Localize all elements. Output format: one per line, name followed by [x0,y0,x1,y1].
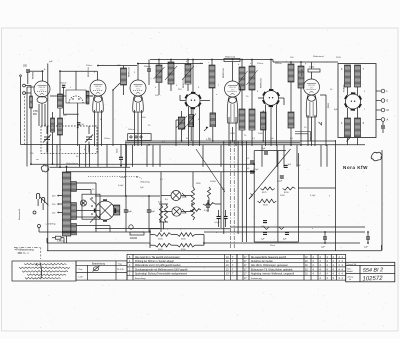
tap contact [57,212,59,214]
inductor L3 grid coil [58,118,63,135]
tube V3 HF pentode [130,80,146,112]
wire [192,60,194,93]
svg-text:3150: 3150 [263,205,269,207]
wire electrode lead [141,110,143,146]
wire V1 grid [27,86,34,88]
resistor R1 0.55M [30,96,33,108]
svg-text:REN 904: REN 904 [229,87,236,89]
wire long vertical left [47,64,49,251]
svg-text:100cm: 100cm [104,138,111,140]
wire vertical drop [152,145,154,167]
wire [215,203,221,205]
wire [61,237,64,239]
wire electrode lead [134,110,136,146]
svg-text:Spulenabgl. Eichung Trennschä: Spulenabgl. Eichung Trennschärfe nachgem… [135,273,188,276]
wire [347,87,349,95]
variable capacitor C2 [43,135,51,143]
selector contact [91,213,93,215]
tap contact [57,195,59,197]
wire bus speaker [95,228,160,230]
wire [38,228,40,233]
capacitor C8f [285,232,289,234]
wire [187,84,189,91]
wire [195,234,204,236]
capacitor C15 500cm [62,85,65,87]
wire vertical drop [85,145,87,167]
wire tone block top [254,150,286,152]
mains plug [37,193,45,203]
wire [232,62,234,82]
voltage selector box [82,194,100,219]
svg-text:Widerstände und C 2,0 µMΩ gepr: Widerstände und C 2,0 µMΩ geprüft werden [135,264,181,267]
junction [290,61,292,63]
svg-text:1910: 1910 [96,88,100,90]
wire vertical drop [296,145,298,167]
arrow L20 [176,116,187,128]
svg-text:1910: 1910 [231,89,235,91]
wire [90,95,93,97]
svg-text:REN 904: REN 904 [39,87,46,89]
wire [176,119,184,121]
wire [179,95,181,101]
wire [270,60,272,91]
wire vertical drop [276,145,278,167]
wire varcap drop a [46,142,48,153]
svg-text:380 V~ =: 380 V~ = [18,251,30,255]
junction [187,59,189,61]
svg-text:Beleuchtg.: Beleuchtg. [141,181,151,184]
wire [125,212,127,232]
wire [30,108,32,164]
wire [59,71,61,94]
svg-text:Prüfung der Röhren u. Spulen a: Prüfung der Röhren u. Spulen abgegl. [135,260,175,263]
svg-text:Durchgangsprobe mit Meßinstrum: Durchgangsprobe mit Meßinstrument 150V g… [135,268,188,271]
svg-text:24.4.35: 24.4.35 [117,269,125,271]
capacitor C13 [323,237,327,239]
wire [109,226,111,232]
resistor R9 divider [155,233,172,237]
svg-text:0,5µF: 0,5µF [118,185,124,187]
wire top bus seg3 [98,65,137,67]
wire [262,111,264,113]
wire [262,130,264,141]
wire [163,222,165,229]
wire [137,112,139,146]
wire [125,196,127,210]
wire [99,211,101,220]
wire vertical drop [126,145,128,167]
terminal antenna [23,84,26,87]
wire [59,108,61,118]
wire vertical drop [106,145,108,167]
junction F1 b [78,98,79,99]
svg-text:WWcm: WWcm [275,63,282,65]
wire [52,132,54,164]
arrow IFT1 tuning [165,66,177,80]
svg-text:1910: 1910 [310,87,314,89]
wire [251,130,253,146]
wire secondary lead [76,189,91,191]
wire [63,238,65,243]
diode arrow V7 cathode [319,122,322,125]
junction [232,140,234,142]
wire dash-dot heater return [14,246,41,248]
wire [258,97,264,99]
svg-text:Prw: Prw [79,268,83,271]
wire [63,87,65,114]
svg-text:Nora KfW: Nora KfW [343,165,368,170]
junction [324,231,326,233]
wire [218,219,220,228]
wire vertical [246,141,248,242]
svg-text:Alle 100 m. Röhrenspez. gemess: Alle 100 m. Röhrenspez. gemessen [251,264,289,267]
wire [207,207,209,212]
wire [290,82,292,112]
handwriting Ø [93,266,100,272]
inductor L26 AF transformer [261,112,267,130]
wire [97,112,99,167]
wire [158,83,160,96]
junction [148,144,150,146]
wire electrode lead [307,115,309,146]
inductor L18 secondary b [71,203,77,220]
svg-text:W: W [136,177,138,179]
inductor L23 RF coupling coil [121,68,127,85]
resistor R6 [203,203,215,206]
wire top bus seg1 [30,70,43,72]
wire electrode lead [101,110,103,146]
wire bus HT1 [125,140,336,142]
mechanical link dotted [88,175,138,177]
wire tap lead [59,203,62,205]
wire [381,245,383,251]
wire bus PSU [95,195,160,197]
svg-text:Bearbeitung: Bearbeitung [92,262,106,265]
tap contact [57,203,59,205]
svg-text:Lehr: Lehr [79,275,84,278]
volume diagonal [249,149,291,199]
wire [347,108,349,118]
junction [97,65,99,67]
svg-text:50000: 50000 [210,181,217,183]
potentiometer hum circle [129,225,133,229]
wire [86,95,93,97]
wire vertical drop [159,145,161,167]
wire V1 anode to bus [42,71,44,81]
wire [37,199,39,206]
svg-text:1µF: 1µF [364,247,368,249]
wire vertical drop [261,145,263,167]
wire bus AVC [31,163,255,165]
wire bus ht left [150,228,230,230]
junction [192,59,194,61]
svg-text:0,1µF: 0,1µF [277,181,283,183]
wire corner a [295,132,311,142]
wire bus 3 [66,171,255,173]
capacitor C6 mains filter [382,125,384,129]
resistor R3b [283,187,296,190]
wire [211,60,213,66]
wire [52,112,54,118]
svg-text:220V: 220V [336,57,341,59]
wire bus heater right [204,231,365,233]
bandfilter F1 box [66,90,86,103]
wire [311,72,313,79]
wire vertical [237,141,239,234]
junction [290,144,292,146]
wire far right vertical [381,150,383,251]
revision table right [237,254,346,280]
wire [149,243,151,245]
wire [96,71,98,80]
junction [112,89,114,91]
wire electrode lead [38,104,40,126]
wire vertical drop [326,145,328,167]
inductor L19 secondary c [71,224,77,235]
svg-text:RENS1264: RENS1264 [223,69,225,78]
svg-text:100cm: 100cm [128,129,135,131]
inductor T1 heater winding b [355,118,361,137]
junction [211,59,213,61]
junction [52,163,54,165]
wire [220,172,222,228]
wire vertical drop [283,145,285,167]
wire [170,60,172,63]
wire vertical drop [79,145,81,167]
wire top bus seg4 [137,63,203,65]
svg-text:RENS1264: RENS1264 [261,79,263,88]
wire antenna earth dashed [23,96,25,145]
wire [52,237,55,239]
arrow L8 [247,70,258,85]
wire [190,127,192,141]
wire bus heater left [64,231,150,233]
wire [150,234,155,236]
svg-text:Widerstand: Widerstand [225,56,235,59]
svg-text:Die wesentliche Neuerung geprü: Die wesentliche Neuerung geprüft [251,256,286,259]
junction [251,59,253,61]
wire [148,196,150,210]
resistor R7 [190,209,201,212]
wire [46,238,48,243]
wire filter top drop [75,71,77,90]
junction [42,70,44,72]
svg-text:Druck Nr: Druck Nr [348,263,357,266]
label table cell marks [244,257,344,280]
wire [357,138,359,145]
diode arrow b [279,227,284,230]
wire [190,109,192,115]
wire electrode lead [44,104,46,126]
wire [96,65,99,67]
wire [30,86,32,97]
resistor R3a [261,187,275,190]
wire [175,120,177,146]
lamp symbol P2 [172,207,181,216]
junction [367,231,369,233]
svg-text:0,1µF: 0,1µF [253,169,259,171]
tube V1 RF amplifier [34,81,50,103]
bandswitch box [128,134,151,141]
wire [161,211,172,213]
wire [46,126,48,134]
junction [212,140,214,142]
arrow L7 [237,71,248,86]
inductor L6 oscillator coil [209,65,215,88]
capacitor C1 antenna [26,70,30,72]
wire [218,210,220,217]
wire [123,85,125,95]
svg-text:250: 250 [23,65,28,68]
switch S2 mains [33,197,48,228]
capacitor C8g [250,161,254,163]
wire [120,145,122,158]
svg-text:REN904: REN904 [33,72,35,79]
wire [232,127,234,141]
svg-text:554 BI 2: 554 BI 2 [363,267,383,274]
partition dash-dot b [233,140,235,248]
wire [159,203,168,205]
wire [212,88,214,113]
terminal earth [23,92,26,95]
selector contact [91,197,93,199]
wire [367,239,369,243]
wire [241,130,243,146]
junction [59,166,61,168]
wire [192,172,194,187]
wire bus ground right [204,242,360,244]
wire [181,111,183,117]
capacitor C8e [263,232,267,234]
junction [324,242,326,244]
resistor R8 [207,187,210,198]
wire [120,159,122,165]
junction [367,242,369,244]
wire [95,183,97,232]
svg-text:RENS1224: RENS1224 [183,79,185,88]
svg-text:500cm: 500cm [61,83,67,85]
wire [241,90,243,109]
resistor R14 0.25M [159,205,162,223]
capacitor C5 250cm [147,69,151,71]
wire tone block left [253,151,255,242]
loudspeaker LS1 [90,199,116,223]
wire [148,60,150,70]
trademark squiggle [371,152,382,161]
diode arrow lamp1 [182,193,186,197]
pilot lamp [80,200,86,206]
wire [382,121,384,125]
wire tap lead [59,195,62,197]
wire left feeder [20,77,22,145]
resistor R13 4000 [130,232,144,235]
wire electrode lead [235,117,237,146]
svg-text:Abnahme der Geräte: Abnahme der Geräte [251,260,273,263]
svg-text:0,1µF: 0,1µF [310,195,316,197]
svg-text:380Ω: 380Ω [327,103,329,109]
inductor L17 secondary a [71,182,77,192]
wire [241,60,243,68]
wire [50,95,66,97]
svg-text:cm: cm [36,159,39,161]
junction [262,140,264,142]
inductor T1 primary winding a [345,65,351,87]
capacitor C10a [217,217,221,219]
wire [201,100,211,102]
wire tap lead [59,211,62,213]
wire [148,212,150,232]
inductor L20 padder a [178,117,185,129]
capacitor C8a [264,152,268,154]
wire [225,219,227,228]
wire [123,66,125,69]
inductor L4 IFT1 primary [168,62,174,84]
svg-text:1910: 1910 [40,89,44,91]
junction [125,144,127,146]
ganged tuning capacitor dashed box [41,126,97,153]
svg-text:Fortsetzung: Fortsetzung [251,277,262,280]
wire socket pin lead [265,105,267,147]
junction [300,144,302,146]
wire bus earth long [47,250,382,252]
wire [88,126,90,134]
selector contact [91,205,93,207]
terminal M [376,108,385,112]
revision table middle [127,254,237,280]
wire vertical drop [202,145,204,167]
svg-text:Skalenlampe: Skalenlampe [66,163,79,165]
wire socket pin lead [199,107,201,147]
svg-text:102572: 102572 [362,276,383,283]
wire [207,200,209,205]
wire socket pin lead [188,107,190,147]
switch contact arrow a [182,126,186,130]
svg-text:250cm: 250cm [257,63,264,65]
table D extra verticals [225,254,231,280]
svg-text:RGN354: RGN354 [344,85,346,92]
wire tone block right [297,153,299,242]
svg-text:MΩ: MΩ [33,113,37,116]
tube V7 output pentode [304,79,320,117]
svg-text:0,1µF: 0,1µF [215,222,221,224]
svg-text:6µF: 6µF [128,211,132,213]
wire [180,100,186,102]
resistor R15 0.5M [164,205,167,223]
fuse F1 [55,236,61,239]
mechanical link dotted end [138,176,143,179]
wire transformer lead diagonal [347,138,351,142]
inductor L5 IFT1 secondary [185,64,191,84]
wire [298,187,335,189]
wire [208,198,210,204]
inductor L22 osc tracking [210,113,216,127]
wire antenna down [26,87,28,167]
diode arrow a [264,227,269,230]
svg-text:a 220Vmp: a 220Vmp [46,224,57,226]
wire [212,127,214,141]
wire [27,73,29,85]
junction [241,59,243,61]
bandfilter F1 dashed dome [69,96,83,103]
wire [59,135,61,167]
partition dash-dot a [229,140,231,248]
svg-text:M: M [387,108,389,112]
wire corner b [295,134,308,141]
wire secondary lead [76,182,96,184]
svg-text:RES164: RES164 [302,69,304,76]
junction [148,195,150,197]
wire [66,236,68,243]
